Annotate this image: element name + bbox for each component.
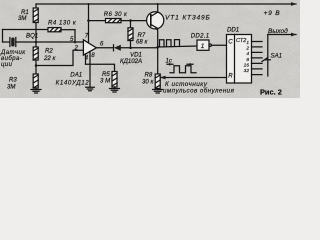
svg-text:3М: 3М: [18, 15, 27, 22]
wire pin 8 to ground: [89, 51, 91, 86]
waveform reset pulses 1s: [167, 63, 196, 73]
transistor VT1: [147, 4, 164, 74]
label R3: [7, 77, 17, 91]
svg-text:BQ1: BQ1: [26, 33, 38, 40]
wire op-amp output: [96, 47, 113, 49]
svg-text:R2: R2: [45, 48, 53, 55]
svg-text:К140УД12: К140УД12: [56, 80, 90, 87]
op-amp DA1: [83, 40, 96, 55]
node piezo/R2 junction: [35, 41, 38, 44]
svg-text:R6 30 к: R6 30 к: [104, 11, 128, 18]
wire pin 7: [88, 4, 90, 42]
ground under R8: [153, 90, 163, 94]
svg-text:4: 4: [85, 54, 89, 61]
svg-text:КД102А: КД102А: [120, 58, 142, 65]
svg-text:32: 32: [244, 68, 250, 74]
wire pin2 path: [36, 50, 83, 65]
wire +9V rail: [36, 2, 297, 6]
wire node-A horizontal (R1 bottom / R4 left): [3, 30, 49, 43]
label sensor: [0, 49, 26, 68]
counter DD1: [227, 35, 252, 84]
svg-text:8: 8: [246, 57, 249, 63]
node collector junction on rail: [157, 3, 159, 5]
resistor R5: [112, 72, 117, 89]
svg-text:1: 1: [201, 43, 205, 50]
resistor R7: [128, 21, 133, 48]
label R5: [100, 71, 111, 85]
wire pin 4: [85, 54, 87, 64]
ground under R3: [31, 90, 41, 94]
svg-text:SA1: SA1: [271, 53, 283, 60]
resistor R8: [155, 74, 160, 90]
svg-text:3М: 3М: [7, 84, 16, 91]
DD1 output pin stubs: [252, 42, 263, 75]
label VD1: [120, 52, 142, 66]
resistor R3: [33, 74, 38, 90]
wire reset line to R input: [160, 76, 227, 80]
wire emitter to DD2.1 input: [158, 46, 197, 47]
svg-text:DD1: DD1: [227, 27, 239, 34]
label DD1 weights: [244, 40, 250, 74]
svg-text:16: 16: [244, 62, 250, 68]
node emitter/DD2 junction: [156, 46, 159, 49]
waveform pulses at DD2 input: [160, 40, 180, 47]
svg-text:+9 В: +9 В: [264, 10, 281, 17]
node pin7 junction on rail: [88, 3, 90, 5]
resistor R2: [33, 47, 38, 74]
resistor R6: [89, 19, 148, 23]
ground under R5: [110, 89, 120, 93]
svg-text:R8: R8: [145, 72, 153, 79]
piezo sensor BQ1: [3, 38, 84, 47]
svg-text:DA1: DA1: [70, 72, 82, 79]
node R6 left junction: [87, 19, 90, 22]
svg-text:Рис. 2: Рис. 2: [260, 87, 282, 96]
label R8: [142, 72, 154, 86]
svg-text:R3: R3: [9, 77, 17, 84]
svg-text:4: 4: [246, 51, 249, 57]
logic gate DD2.1: [197, 40, 227, 50]
svg-text:импульсов обнуления: импульсов обнуления: [163, 88, 235, 95]
svg-text:1: 1: [246, 40, 249, 46]
svg-text:7: 7: [85, 33, 89, 40]
label DA1: [56, 72, 90, 87]
resistor R4: [48, 28, 75, 42]
wire pin 8 to R5: [86, 64, 115, 71]
switch SA1: [262, 35, 270, 77]
node R2/R3/pin2 junction: [35, 64, 38, 67]
ground under pin 8: [86, 87, 95, 90]
label R7: [136, 32, 148, 46]
node R6/R7 junction: [129, 19, 132, 22]
node R7 bottom junction: [129, 47, 132, 50]
svg-text:R: R: [228, 73, 233, 80]
diode VD1: [114, 45, 158, 51]
label reset source: [163, 81, 235, 95]
svg-text:DD2.1: DD2.1: [191, 33, 210, 40]
svg-text:30 к: 30 к: [142, 79, 154, 86]
label R1: [18, 9, 29, 22]
resistor R1: [33, 4, 38, 47]
node piezo/R4/pin5 junction: [74, 41, 77, 44]
svg-text:R4 130 к: R4 130 к: [48, 20, 77, 27]
svg-text:2: 2: [74, 45, 79, 52]
svg-text:22 к: 22 к: [43, 55, 56, 62]
svg-text:1с: 1с: [166, 58, 172, 65]
label R2: [43, 48, 56, 63]
svg-text:ции: ции: [1, 61, 13, 68]
svg-text:Выход: Выход: [268, 27, 288, 35]
svg-text:68 к: 68 к: [136, 39, 148, 46]
svg-text:3 М: 3 М: [100, 78, 111, 85]
svg-text:2: 2: [245, 46, 249, 52]
svg-text:VT1 КТ349Б: VT1 КТ349Б: [165, 15, 211, 22]
wire output arrow: [268, 33, 297, 37]
svg-text:С: С: [228, 39, 233, 46]
